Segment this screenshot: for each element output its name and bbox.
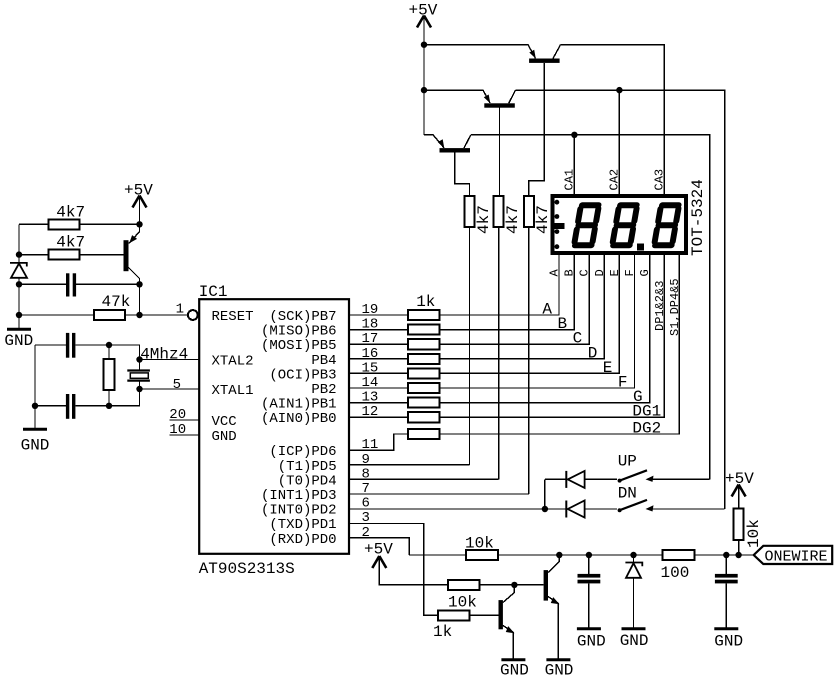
display decimal point [637, 244, 644, 251]
svg-text:(OCI)PB3: (OCI)PB3 [269, 367, 336, 383]
node junction Q7 collector [511, 582, 517, 588]
power +5V top [409, 2, 438, 28]
svg-text:CA2: CA2 [608, 169, 622, 191]
svg-text:GND: GND [4, 332, 33, 350]
wire segment D net [349, 255, 604, 359]
svg-text:AT90S2313S: AT90S2313S [199, 560, 295, 578]
resistor R20 100 [661, 550, 695, 582]
node junction +5V/T2 [421, 87, 427, 93]
zener diode D1 [10, 263, 27, 278]
resistor R15 1k [408, 398, 440, 408]
switch S2 DN [618, 485, 725, 513]
crystal Q5 4Mhz4 [127, 346, 188, 390]
node junction R18 bottom [735, 552, 741, 558]
svg-text:(SCK)PB7: (SCK)PB7 [269, 309, 336, 325]
svg-text:F: F [618, 374, 628, 392]
wire crystal rail left [34, 345, 36, 428]
svg-text:(AIN0)PB0: (AIN0)PB0 [261, 411, 337, 427]
svg-text:(T1)PD5: (T1)PD5 [278, 459, 337, 475]
resistor R17 1k [408, 429, 440, 439]
wire segment A net [349, 255, 559, 315]
transistor Q6 NPN [544, 555, 560, 658]
capacitor C2 [35, 333, 109, 358]
svg-text:GND: GND [577, 633, 606, 651]
wire Q4 collector row to right [471, 135, 710, 480]
svg-text:IC1: IC1 [199, 283, 228, 301]
wire pin 3 down to 1k [349, 524, 499, 616]
svg-text:GND: GND [500, 662, 529, 680]
wire R7 down to pin8 row [498, 227, 500, 479]
resistor R9 1k [408, 310, 440, 320]
resistor R22 1k [433, 610, 470, 641]
svg-text:1: 1 [176, 302, 184, 318]
diode D2 (UP) [545, 471, 617, 488]
svg-text:CA3: CA3 [653, 169, 667, 191]
svg-text:E: E [603, 359, 613, 377]
wire left rail (zener branch) [18, 224, 20, 328]
svg-text:RESET: RESET [212, 309, 254, 325]
transistor Q2 (digit3 driver PNP) [529, 45, 561, 196]
svg-text:GND: GND [620, 632, 649, 650]
wire CA1 [573, 135, 575, 195]
wire onewire row [409, 554, 754, 556]
node junction XTAL1 [136, 386, 142, 392]
wire XTAL1 pin row [140, 388, 200, 390]
ground GND C4 [577, 629, 606, 651]
svg-text:10k: 10k [745, 519, 763, 548]
display U2 TOT-5324 [553, 169, 708, 256]
svg-text:4k7: 4k7 [504, 205, 522, 234]
svg-text:(MISO)PB6: (MISO)PB6 [261, 324, 337, 340]
wire pin 9 to R6 [349, 464, 470, 466]
capacitor C5 [715, 555, 738, 628]
node junction CA2 tap [616, 87, 622, 93]
svg-text:D: D [588, 344, 598, 362]
node junction 47k right [136, 312, 142, 318]
svg-text:PB4: PB4 [311, 353, 336, 369]
svg-text:20: 20 [169, 407, 186, 423]
svg-text:UP: UP [618, 453, 637, 471]
wire CA2 [618, 90, 620, 194]
svg-text:10k: 10k [465, 535, 494, 553]
svg-text:TOT-5324: TOT-5324 [689, 179, 707, 256]
node junction CA1 tap [571, 132, 577, 138]
svg-text:A: A [542, 301, 552, 319]
svg-text:GND: GND [545, 662, 574, 680]
display decimal dots column [551, 200, 565, 249]
connector ONEWIRE [754, 546, 833, 566]
wire VCC pin 20 stub [169, 419, 199, 421]
node junction C5 top [723, 552, 729, 558]
display digit 2 [612, 205, 637, 245]
svg-text:100: 100 [661, 564, 690, 582]
wire collector node down [139, 284, 141, 315]
svg-text:4k7: 4k7 [56, 204, 85, 222]
svg-text:(T0)PD4: (T0)PD4 [278, 473, 337, 489]
pin 1 reset circle [188, 310, 198, 320]
svg-text:GND: GND [714, 633, 743, 651]
node junction pin6/diodes [542, 506, 548, 512]
svg-text:(RXD)PD0: (RXD)PD0 [269, 532, 336, 548]
wire +5V left rail [139, 196, 141, 232]
svg-text:VCC: VCC [212, 414, 237, 430]
wire pin 8 to R7 [349, 478, 499, 480]
node junction C3/R4 bottom [106, 403, 112, 409]
resistor R16 1k [408, 412, 440, 422]
node junction C1 right [136, 281, 142, 287]
display segment pin labels [548, 269, 682, 337]
svg-text:C: C [573, 330, 583, 348]
capacitor C1 [19, 273, 140, 296]
svg-text:1k: 1k [416, 293, 435, 311]
node junction +5V/T1 [421, 42, 427, 48]
resistor R12 1k [408, 354, 440, 364]
ground GND top-left [4, 329, 33, 350]
labels right pin numbers [362, 302, 379, 541]
node junction Q6 collector [556, 552, 562, 558]
svg-text:47k: 47k [102, 293, 131, 311]
svg-text:4k7: 4k7 [475, 205, 493, 234]
resistor R6 4k7 (base digit1) [465, 196, 494, 234]
resistor R18 10k pullup [734, 485, 763, 556]
resistor R3 47k [19, 293, 188, 320]
wire GND pin 10 stub [169, 434, 199, 436]
wire segment DG2 net pin 11 [349, 255, 679, 450]
wire segment C net [349, 255, 589, 344]
svg-text:4k7: 4k7 [56, 234, 85, 252]
svg-text:XTAL1: XTAL1 [212, 383, 254, 399]
svg-text:GND: GND [21, 437, 50, 455]
svg-text:(ICP)PD6: (ICP)PD6 [269, 444, 336, 460]
wire segment DG1 net [349, 255, 664, 417]
node junction XTAL2 [136, 356, 142, 362]
power +5V left [124, 182, 153, 208]
wire R8 down to pin7 row [528, 227, 530, 494]
svg-text:ONEWIRE: ONEWIRE [765, 549, 828, 566]
svg-text:GND: GND [212, 429, 237, 445]
diode D3 (DN) [545, 501, 617, 518]
resistor R11 1k [408, 339, 440, 349]
wire diode link vertical [544, 479, 546, 509]
svg-text:(INT1)PD3: (INT1)PD3 [261, 488, 337, 504]
svg-text:1k: 1k [433, 623, 452, 641]
transistor Q3 (digit2 driver PNP) [484, 90, 516, 196]
display digit 3 [654, 205, 679, 245]
node junction D4 top [630, 552, 636, 558]
switch S1 UP [618, 453, 710, 483]
ground GND D4 [620, 629, 649, 650]
wire XTAL2 pin row [140, 359, 200, 361]
op-amp U1 AT90S2313 IC box [199, 283, 349, 578]
svg-text:(INT0)PD2: (INT0)PD2 [261, 503, 337, 519]
wire XTAL1 down jog [109, 389, 140, 406]
svg-text:XTAL2: XTAL2 [212, 354, 254, 370]
node junction C2/R4 [106, 342, 112, 348]
ground GND C5 [714, 629, 743, 651]
node junction R1/+5V [136, 221, 142, 227]
node junction C3 left rail [32, 403, 38, 409]
node junction C1 left [16, 281, 22, 287]
wire T1 emitter row [424, 45, 536, 59]
resistor R7 4k7 (base digit2) [494, 196, 522, 234]
wire pin 2 down to onewire row [349, 538, 409, 555]
ground GND Q6 [545, 660, 574, 680]
svg-text:DG1: DG1 [632, 403, 661, 421]
transistor Q4 (digit1 driver PNP) [424, 135, 471, 196]
svg-text:(MOSI)PB5: (MOSI)PB5 [261, 338, 337, 354]
wire segment B net [349, 255, 574, 330]
resistor R8 4k7 (base digit3) [524, 196, 552, 234]
svg-text:CA1: CA1 [563, 169, 577, 191]
resistor R1 4k7 [19, 204, 140, 230]
wire segment E net [349, 255, 619, 373]
wire R6 down to pin9 row [469, 227, 471, 465]
IC right pin names [261, 309, 337, 548]
wire T2 emitter row [424, 90, 490, 103]
power +5V right [725, 470, 754, 497]
wire C2 junction to XTAL2 [109, 345, 140, 360]
wire pin 6 to diodes [349, 508, 545, 510]
wire Q2 collector to CA3 [561, 45, 665, 195]
transistor Q1 PNP [124, 232, 140, 285]
svg-text:4Mhz4: 4Mhz4 [140, 346, 188, 364]
capacitor C4 [578, 555, 601, 628]
svg-text:PB2: PB2 [311, 382, 336, 398]
ground GND crystal [21, 429, 50, 454]
resistor R13 1k [408, 368, 440, 378]
ground GND Q7 [500, 660, 529, 680]
svg-text:DN: DN [618, 485, 637, 503]
node junction zener/R2 [16, 251, 22, 257]
transistor Q7 NPN [499, 585, 515, 658]
wire segment F net [349, 255, 635, 388]
svg-text:4k7: 4k7 [534, 205, 552, 234]
resistor R10 1k [408, 325, 440, 335]
node junction 47k left [16, 312, 22, 318]
power +5V middle [364, 541, 393, 569]
svg-text:10: 10 [169, 422, 186, 438]
zener diode D4 [625, 555, 642, 628]
resistor R21 10k [448, 580, 480, 612]
resistor R19 10k [465, 535, 498, 561]
resistor R2 4k7 [19, 234, 124, 260]
svg-text:10k: 10k [448, 594, 477, 612]
svg-text:(TXD)PD1: (TXD)PD1 [269, 517, 336, 533]
IC left pin names [212, 309, 254, 445]
wire +5V vertical rail top [423, 16, 425, 135]
svg-text:(AIN1)PB1: (AIN1)PB1 [261, 397, 337, 413]
resistor R14 1k [408, 383, 440, 393]
wire segment G net [349, 255, 650, 403]
svg-text:5: 5 [173, 377, 181, 393]
resistor R4 (parallel crystal) [104, 345, 115, 406]
capacitor C3 [35, 394, 109, 419]
svg-text:B: B [557, 315, 567, 333]
svg-text:DG2: DG2 [632, 420, 661, 438]
wire Q3 collector row to right [516, 90, 725, 509]
node junction C4 top [586, 552, 592, 558]
display digit 1 [574, 205, 599, 245]
wire +5V to base resistor [379, 556, 543, 585]
wire pin 7 to R8 [349, 493, 529, 495]
